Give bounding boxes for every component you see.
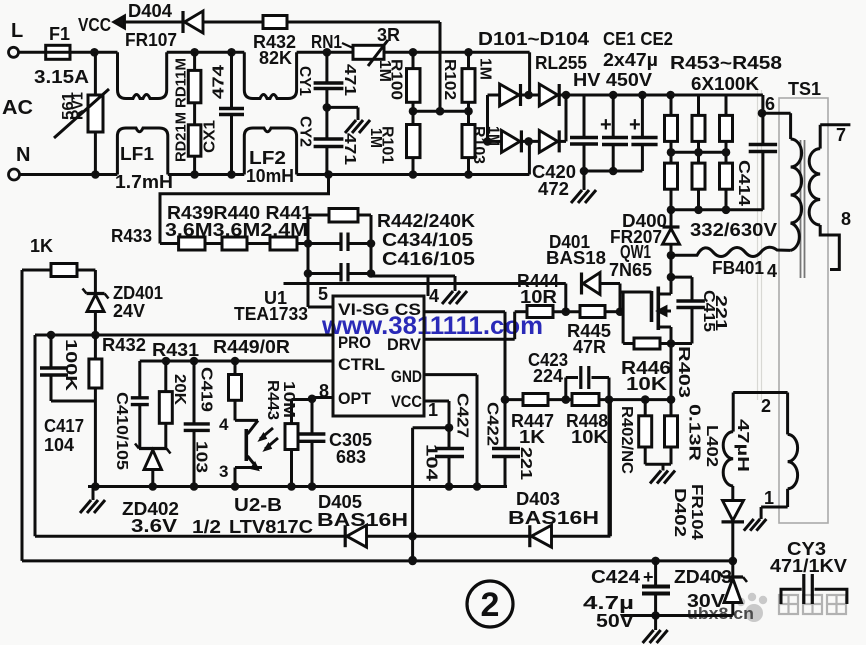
svg-text:C416/105: C416/105 — [382, 249, 475, 269]
svg-text:C422: C422 — [484, 402, 501, 446]
svg-text:R433: R433 — [111, 226, 152, 246]
svg-text:50V: 50V — [596, 611, 634, 631]
svg-text:F1: F1 — [49, 24, 70, 44]
svg-text:R102: R102 — [441, 59, 458, 100]
svg-text:LF1: LF1 — [120, 144, 154, 164]
svg-text:ZD403: ZD403 — [674, 567, 732, 587]
svg-text:471: 471 — [341, 133, 358, 165]
svg-text:7: 7 — [836, 125, 846, 145]
svg-text:C424: C424 — [591, 567, 640, 587]
svg-text:C410/105: C410/105 — [113, 392, 130, 470]
svg-text:R432: R432 — [102, 335, 146, 355]
svg-text:C419: C419 — [198, 367, 215, 412]
svg-text:VCC: VCC — [391, 392, 422, 411]
svg-text:R431: R431 — [152, 340, 199, 360]
svg-text:8: 8 — [841, 209, 851, 229]
svg-text:3R: 3R — [377, 25, 400, 45]
svg-text:471: 471 — [341, 64, 358, 96]
svg-text:LF2: LF2 — [249, 148, 286, 168]
svg-text:CX1: CX1 — [201, 120, 218, 153]
svg-text:RN1: RN1 — [311, 32, 342, 52]
svg-text:472: 472 — [538, 179, 569, 199]
svg-text:7N65: 7N65 — [609, 260, 652, 280]
svg-text:LTV817C: LTV817C — [229, 517, 313, 537]
svg-text:1K: 1K — [519, 427, 545, 447]
svg-text:3: 3 — [219, 462, 228, 481]
svg-text:C417: C417 — [44, 416, 84, 436]
svg-text:4.7µ: 4.7µ — [583, 593, 634, 613]
svg-text:C427: C427 — [454, 393, 471, 438]
svg-text:1: 1 — [764, 488, 774, 508]
svg-text:100K: 100K — [62, 339, 79, 392]
svg-text:10K: 10K — [571, 427, 608, 447]
svg-text:FB401: FB401 — [712, 258, 764, 278]
svg-text:D403: D403 — [516, 489, 560, 509]
svg-text:5: 5 — [318, 284, 328, 304]
svg-text:BAS16H: BAS16H — [508, 508, 599, 528]
svg-text:OPT: OPT — [338, 389, 372, 408]
svg-text:3.15A: 3.15A — [34, 67, 89, 87]
svg-text:L: L — [11, 20, 23, 42]
svg-text:1M: 1M — [367, 128, 384, 148]
svg-text:BAS18: BAS18 — [546, 248, 606, 268]
svg-text:FR107: FR107 — [125, 30, 177, 50]
svg-text:2: 2 — [761, 396, 771, 416]
svg-text:R403: R403 — [675, 346, 692, 398]
svg-text:4: 4 — [219, 415, 229, 434]
svg-text:47µH: 47µH — [734, 419, 751, 472]
svg-text:CY2: CY2 — [297, 116, 314, 147]
svg-text:1/2: 1/2 — [192, 517, 221, 537]
svg-text:24V: 24V — [113, 301, 145, 321]
svg-text:BAS16H: BAS16H — [317, 510, 408, 530]
svg-text:D404: D404 — [128, 1, 172, 21]
svg-text:4: 4 — [767, 261, 777, 281]
svg-text:10mH: 10mH — [246, 166, 294, 186]
svg-text:C434/105: C434/105 — [382, 230, 473, 250]
svg-text:ZD401: ZD401 — [113, 283, 163, 303]
svg-text:VCC: VCC — [78, 15, 111, 35]
svg-text:DRV: DRV — [387, 335, 422, 354]
svg-text:RD21M: RD21M — [172, 112, 189, 162]
svg-text:4: 4 — [429, 286, 439, 306]
svg-text:QW1: QW1 — [620, 242, 651, 262]
svg-text:1M: 1M — [477, 58, 494, 80]
svg-text:+: + — [643, 567, 654, 587]
svg-text:N: N — [16, 144, 30, 166]
svg-text:221: 221 — [517, 447, 534, 480]
svg-text:D402: D402 — [671, 488, 688, 537]
svg-text:2: 2 — [481, 586, 500, 624]
svg-text:0.13R: 0.13R — [686, 404, 703, 462]
svg-text:D405: D405 — [318, 492, 362, 512]
svg-text:10M: 10M — [280, 381, 297, 418]
svg-text:TS1: TS1 — [788, 79, 821, 99]
svg-text:82K: 82K — [259, 48, 292, 68]
svg-text:+: + — [600, 114, 612, 136]
svg-text:R442/240K: R442/240K — [377, 211, 475, 231]
svg-text:RV1: RV1 — [69, 92, 86, 120]
svg-text:AC: AC — [2, 97, 33, 119]
svg-text:2x47µ: 2x47µ — [603, 50, 658, 70]
svg-text:VI-SG CS: VI-SG CS — [338, 300, 421, 319]
svg-text:103: 103 — [193, 441, 210, 473]
svg-text:6: 6 — [765, 94, 775, 114]
svg-text:221: 221 — [712, 295, 729, 331]
svg-text:R100: R100 — [388, 59, 405, 100]
svg-text:104: 104 — [44, 435, 74, 455]
svg-text:224: 224 — [533, 366, 563, 386]
svg-text:FR104: FR104 — [688, 484, 705, 540]
svg-text:20K: 20K — [171, 374, 188, 405]
svg-text:10K: 10K — [626, 374, 667, 394]
svg-text:471/1KV: 471/1KV — [770, 556, 847, 576]
svg-text:474: 474 — [210, 65, 227, 99]
svg-text:TEA1733: TEA1733 — [234, 304, 308, 324]
svg-text:+: + — [629, 114, 641, 136]
svg-text:683: 683 — [336, 447, 366, 467]
svg-text:CE1 CE2: CE1 CE2 — [603, 29, 673, 49]
svg-text:1: 1 — [428, 400, 438, 420]
svg-text:1.7mH: 1.7mH — [115, 172, 173, 192]
svg-text:8: 8 — [319, 381, 329, 401]
svg-text:104: 104 — [423, 444, 440, 481]
svg-text:CY1: CY1 — [296, 66, 313, 96]
svg-text:3.6M3.6M2.4M: 3.6M3.6M2.4M — [165, 220, 308, 240]
svg-text:6X100K: 6X100K — [691, 74, 759, 94]
svg-text:332/630V: 332/630V — [690, 220, 777, 240]
svg-text:1M: 1M — [485, 126, 502, 146]
svg-text:R443: R443 — [264, 380, 281, 420]
svg-text:RD11M: RD11M — [172, 58, 189, 108]
svg-text:L402: L402 — [703, 425, 720, 467]
svg-text:PRO: PRO — [338, 333, 371, 352]
svg-text:10R: 10R — [520, 287, 557, 307]
svg-text:30V: 30V — [687, 591, 725, 611]
svg-text:R402/NC: R402/NC — [618, 406, 635, 474]
svg-text:1K: 1K — [30, 236, 53, 256]
svg-text:HV 450V: HV 450V — [573, 70, 652, 90]
svg-text:R453~R458: R453~R458 — [670, 53, 782, 73]
svg-text:R103: R103 — [470, 126, 487, 164]
svg-text:GND: GND — [391, 367, 422, 386]
svg-text:R449/0R: R449/0R — [213, 337, 290, 357]
svg-text:C414: C414 — [735, 160, 752, 206]
svg-text:47R: 47R — [573, 337, 606, 357]
svg-text:D101~D104: D101~D104 — [478, 29, 589, 49]
svg-text:U2-B: U2-B — [234, 495, 282, 515]
svg-text:3.6V: 3.6V — [131, 516, 177, 536]
svg-text:CTRL: CTRL — [338, 355, 385, 374]
